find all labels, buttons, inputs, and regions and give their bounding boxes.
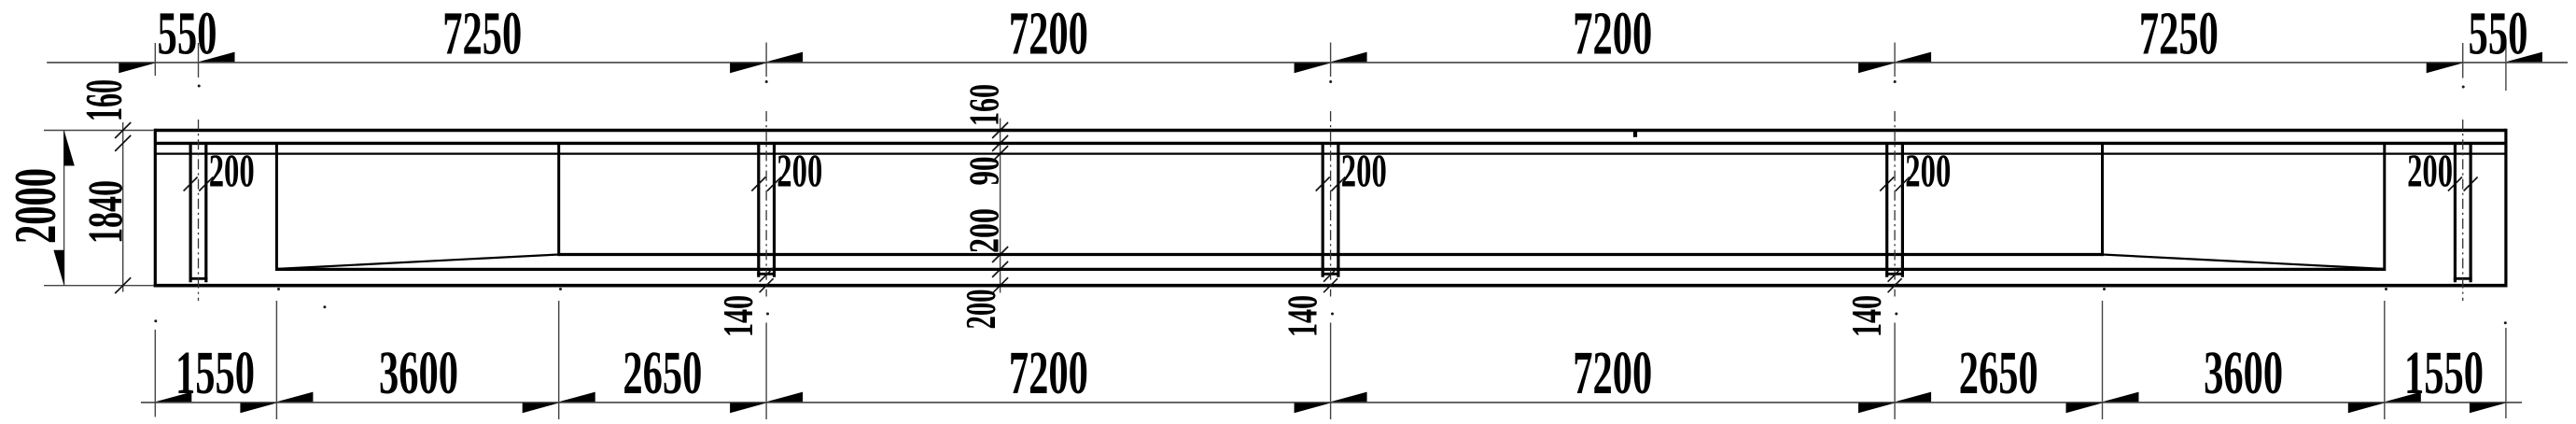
beam right edge: [2504, 129, 2507, 288]
svg-text:140: 140: [1842, 295, 1890, 337]
bottom extension line 5: [1330, 323, 1332, 420]
bottom dimension chain line: [141, 402, 2522, 403]
svg-text:200: 200: [1341, 144, 1387, 196]
post P3 width tick left: [1316, 177, 1330, 191]
top extension line 6: [2462, 43, 2464, 78]
svg-text:7250: 7250: [442, 0, 522, 68]
arrow 2000 top: [64, 131, 75, 166]
left chain tick 1: [115, 122, 131, 138]
beam slab bottom line: [155, 142, 2506, 145]
post P1 width tick right: [199, 177, 213, 191]
center chain tick 1: [992, 122, 1008, 138]
void midspan bottom line: [559, 253, 2103, 256]
post P2 width tick left: [751, 177, 765, 191]
post P5 width tick left: [2448, 177, 2462, 191]
left chain tick 3: [115, 277, 131, 293]
beam thin line: [155, 153, 2506, 155]
node dot 1: [198, 85, 201, 88]
left chain line 160/1840: [122, 122, 124, 292]
svg-text:200: 200: [2407, 144, 2453, 196]
top tick at 7800: [730, 64, 766, 74]
center chain tick 5: [992, 261, 1008, 277]
left horizontal extension bottom: [44, 285, 154, 287]
post P4 bottom cap: [1885, 273, 1904, 276]
post P5 left line: [2454, 143, 2457, 282]
bottom extension line 3: [558, 301, 560, 419]
node dot 11: [766, 313, 769, 316]
post P5 right line: [2470, 143, 2472, 282]
post P2 left line: [757, 143, 760, 276]
node dot 15: [2385, 288, 2387, 290]
svg-text:7200: 7200: [1009, 0, 1088, 68]
bottom extension line 9: [2505, 328, 2507, 418]
svg-text:160: 160: [960, 84, 1008, 126]
svg-text:550: 550: [158, 0, 217, 68]
post P3 140 tick top: [1323, 268, 1337, 282]
bottom tick 5: [1295, 403, 1331, 414]
bottom tick 4: [730, 403, 766, 414]
bottom tick at right edge: [2470, 403, 2506, 414]
node dot 7: [323, 305, 326, 308]
bottom extension line 2: [275, 301, 277, 419]
top tick at 29450: [2427, 64, 2463, 74]
node dot 3: [765, 80, 768, 83]
svg-text:2650: 2650: [1959, 339, 2038, 407]
post P2 width tick right: [767, 177, 781, 191]
svg-text:3600: 3600: [379, 339, 458, 407]
left end block edge: [275, 143, 278, 271]
bottom extension line 6: [1894, 323, 1896, 420]
post P1 centerline: [198, 120, 200, 301]
svg-text:200: 200: [957, 290, 1004, 330]
top tick at left edge: [119, 64, 155, 74]
svg-text:140: 140: [714, 295, 762, 337]
post P5 bottom cap: [2454, 277, 2472, 280]
bottom tick 6: [1858, 403, 1895, 414]
center chain tick 6: [992, 277, 1008, 293]
svg-text:200: 200: [777, 144, 822, 196]
node dot 10: [559, 288, 562, 290]
top extension line 4: [1330, 43, 1332, 78]
svg-text:1550: 1550: [2404, 339, 2484, 407]
bottom tick 7: [2066, 403, 2103, 414]
post P2 140 tick bottom: [760, 278, 774, 292]
top tick at 15000: [1295, 64, 1331, 74]
left horizontal extension top: [44, 130, 154, 132]
svg-text:160: 160: [76, 79, 133, 121]
center chain tick 4: [992, 247, 1008, 262]
svg-text:550: 550: [2469, 0, 2528, 68]
post P1 width tick left: [184, 177, 198, 191]
post P4 width tick right: [1896, 177, 1910, 191]
post P3 width tick right: [1331, 177, 1345, 191]
left haunch edge: [557, 143, 560, 256]
post P3 left line: [1322, 143, 1324, 276]
top extension line 7: [2505, 43, 2507, 91]
svg-text:140: 140: [1278, 295, 1325, 337]
post P4 140 tick top: [1888, 268, 1902, 282]
post P3 140 tick bottom: [1323, 278, 1337, 292]
post P1 right line: [204, 143, 207, 282]
small stub mark on top flange: [1633, 132, 1637, 137]
bottom tick at left edge: [155, 392, 191, 403]
right haunch edge: [2101, 143, 2104, 256]
bottom tick 2: [240, 403, 276, 414]
svg-text:90: 90: [960, 157, 1008, 186]
top tick at right edge: [2506, 52, 2542, 63]
beam top flange line: [155, 129, 2506, 132]
node dot 14: [2103, 288, 2106, 290]
post P2 bottom cap: [757, 273, 776, 276]
post P2 140 tick top: [760, 268, 774, 282]
post P4 140 tick bottom: [1888, 278, 1902, 292]
node dot 4: [1329, 80, 1332, 83]
post P5 centerline: [2462, 120, 2464, 301]
svg-text:2000: 2000: [3, 168, 68, 244]
right haunch diagonal: [2103, 255, 2384, 269]
center chain tick 2: [992, 135, 1008, 151]
top extension line 2: [198, 43, 200, 78]
svg-text:7200: 7200: [1009, 339, 1088, 407]
top dimension chain line: [47, 62, 2568, 64]
svg-text:7200: 7200: [1573, 339, 1652, 407]
svg-text:200: 200: [209, 144, 255, 196]
top extension line 3: [765, 43, 767, 78]
post P3 bottom cap: [1322, 273, 1340, 276]
post P4 centerline: [1894, 111, 1896, 297]
bottom tick 8: [2348, 403, 2385, 414]
bottom extension line 8: [2384, 301, 2386, 419]
post P3 centerline: [1330, 111, 1332, 297]
post P4 right line: [1901, 143, 1904, 276]
beam bottom line: [154, 284, 2508, 288]
left haunch diagonal: [277, 255, 558, 269]
beam left edge: [154, 129, 157, 288]
svg-text:7250: 7250: [2139, 0, 2219, 68]
post P2 right line: [773, 143, 776, 276]
top extension line 1: [154, 43, 156, 76]
post P4 left line: [1885, 143, 1888, 276]
node dot 12: [1331, 313, 1334, 316]
bottom tick 3: [523, 403, 559, 414]
post P3 right line: [1337, 143, 1339, 276]
bottom extension line 1: [154, 330, 156, 417]
node dot 13: [1895, 313, 1897, 316]
top tick at 22200: [1858, 64, 1895, 74]
top tick at 550: [199, 52, 235, 63]
svg-text:3600: 3600: [2204, 339, 2283, 407]
node dot 8: [2504, 321, 2507, 324]
svg-text:2650: 2650: [623, 339, 702, 407]
svg-text:200: 200: [1905, 144, 1951, 196]
center chain tick 3: [992, 146, 1008, 162]
node dot 5: [1894, 80, 1897, 83]
post P1 left line: [189, 143, 192, 282]
left chain tick 2: [115, 135, 131, 151]
bottom extension line 7: [2102, 301, 2104, 419]
svg-text:7200: 7200: [1573, 0, 1652, 68]
post P4 width tick left: [1880, 177, 1894, 191]
center chain line: [1000, 119, 1001, 293]
post P2 centerline: [765, 111, 767, 297]
node dot 6: [154, 319, 157, 322]
svg-text:1550: 1550: [175, 339, 255, 407]
node dot 2: [2462, 86, 2465, 89]
svg-text:1840: 1840: [79, 180, 133, 244]
post P1 bottom cap: [189, 277, 208, 280]
svg-text:200: 200: [960, 208, 1008, 253]
bottom extension line 4: [765, 323, 767, 420]
node dot 9: [277, 288, 280, 290]
arrow 2000 bottom: [53, 250, 63, 286]
dim line 2000: [63, 131, 65, 286]
post P5 width tick right: [2464, 177, 2478, 191]
right end block edge: [2383, 143, 2386, 271]
void bottom slab line: [276, 268, 2384, 271]
top extension line 5: [1894, 43, 1896, 78]
